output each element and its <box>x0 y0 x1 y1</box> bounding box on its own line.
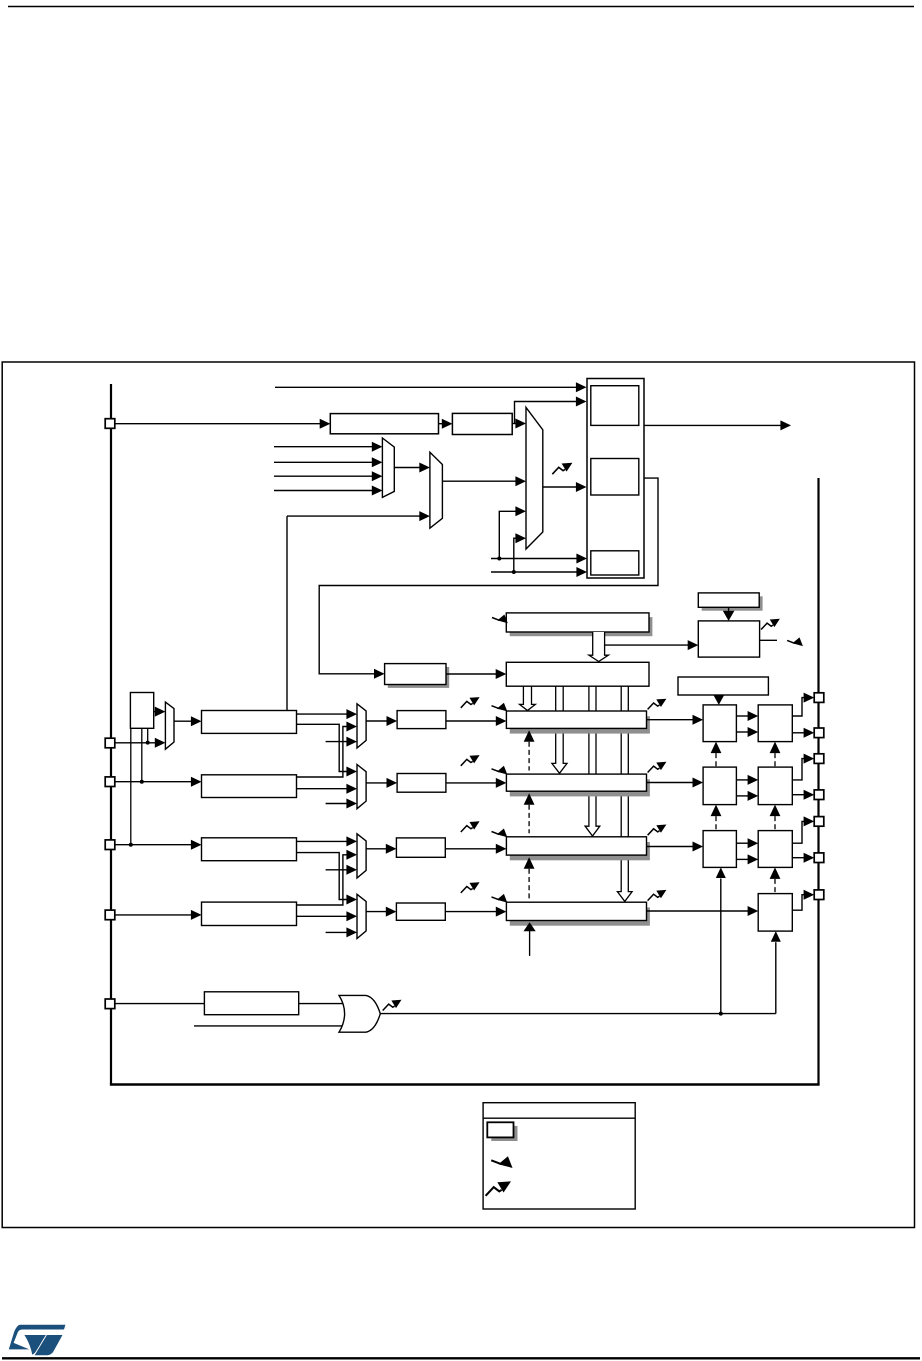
mux M30 edge select <box>357 834 366 878</box>
wire clock tap 2 <box>274 461 374 463</box>
box prescaler P2 <box>452 413 512 434</box>
mux M1 clock select <box>382 438 394 497</box>
write strobe symbol at CC3 <box>492 829 508 838</box>
wire pin4 to channel4 box <box>115 914 193 916</box>
register CR2 control <box>506 662 649 686</box>
dashed link CC3 to CC4 <box>524 857 535 869</box>
interrupt flag symbol at G1 <box>383 1000 402 1011</box>
wire CR1 to interrupt block <box>605 644 690 646</box>
dashed link output3 to output4 <box>770 867 781 879</box>
wire clock tap 1 <box>274 446 374 448</box>
legend write strobe symbol <box>491 1156 512 1168</box>
box channel1 input stage <box>202 711 297 734</box>
bus arrow to register CC1 <box>520 686 536 710</box>
arrow compare clock under CC4 <box>524 922 536 931</box>
wire output circuit 1 to pin bottom <box>792 732 806 734</box>
wire edge register tap to pin3 net <box>130 728 132 844</box>
box overflow prescaler <box>388 667 449 688</box>
wire clock tap 3 <box>274 475 374 477</box>
wire output circuit 3 to pin bottom <box>792 857 806 859</box>
dashed link output1 to output2 <box>770 742 781 754</box>
register counter low <box>591 459 639 496</box>
pin OUT1B <box>814 728 824 738</box>
wire EXTCLK pin to prescaler <box>115 423 322 425</box>
wire latch to register CC3 <box>445 848 498 850</box>
wire clock tap 4 <box>274 490 374 492</box>
arrow mask register to interrupt logic <box>728 607 730 611</box>
dashed link compare2 to compare3 <box>711 805 722 817</box>
wire mux to latch channel2 <box>366 782 388 784</box>
wire forced compare to OR gate <box>194 1025 345 1027</box>
wire pin1 to M0 <box>115 742 157 744</box>
arrows compare to output circuit 2 <box>736 779 750 781</box>
bus arrow CR1 to CR2 <box>589 632 609 662</box>
wires channel3/channel4 edge select <box>297 840 349 842</box>
wire mux to latch channel3 <box>366 848 388 850</box>
interrupt flag symbol left of CC4 <box>461 882 480 893</box>
pin OCMP5 <box>105 999 115 1009</box>
pin OUT3A <box>814 817 824 827</box>
legend box <box>483 1103 635 1209</box>
register CC4 <box>510 907 650 925</box>
wire edge register to M0 <box>154 711 158 713</box>
wire output circuit 3 to pin top <box>792 821 806 843</box>
box compare circuit 3 <box>703 831 736 868</box>
pin OUT4 <box>814 890 824 900</box>
pin OUT1A <box>814 693 824 703</box>
wire OCMP box to OR gate <box>299 1003 345 1005</box>
box interrupt mask register <box>702 596 763 610</box>
interrupt flag symbol left of CC3 <box>461 821 480 832</box>
wire channel1 tap to M2 <box>286 516 288 711</box>
box channel3 input stage <box>202 838 297 861</box>
interrupt flag symbol at M3 <box>552 463 572 474</box>
dashed link compare1 to compare2 <box>711 742 722 754</box>
page bottom rule <box>2 1357 920 1359</box>
write strobe symbol at CC2 <box>492 766 508 775</box>
wire CC4 to output circuit <box>647 910 750 912</box>
register CC3 <box>510 842 650 860</box>
box output circuit 3 <box>758 831 792 868</box>
box channel3 latch <box>396 838 445 857</box>
pin ICAP3 <box>105 840 115 850</box>
wire edge register tap to pin2 net <box>141 728 143 781</box>
box output circuit 2 <box>758 767 792 805</box>
wire mux to latch channel4 <box>366 911 388 913</box>
wire fCPU to register block <box>275 386 578 388</box>
wire CC3 to compare circuit <box>647 846 695 848</box>
box compare circuit 1 <box>703 705 736 742</box>
wire net A to register block <box>491 558 579 560</box>
legend title rule <box>483 1117 635 1119</box>
bus arrow to register CC2 <box>552 686 567 773</box>
pin OUT2B <box>814 790 824 800</box>
wire M2 to M3 <box>442 480 518 482</box>
register alternate counter <box>591 551 639 575</box>
wire M3 to register block <box>543 486 578 488</box>
pin OUT2A <box>814 754 824 764</box>
write strobe symbol at CC1 <box>492 703 508 712</box>
arrow OC control to OC1 circuit <box>718 695 720 696</box>
box counter register block <box>587 379 644 579</box>
wire pin5 to OCMP box <box>115 1003 204 1005</box>
wire output circuit 1 to pin top <box>792 698 806 716</box>
box channel2 input stage <box>202 775 297 798</box>
box interrupt logic <box>698 621 759 657</box>
bus arrow to register CC4 <box>617 686 632 901</box>
figure frame <box>2 362 914 1228</box>
interrupt flag symbol right of CC4 <box>648 890 667 901</box>
wire interrupt request stub <box>760 639 777 641</box>
legend interrupt flag symbol <box>486 1181 511 1195</box>
box output circuit 1 <box>758 705 792 742</box>
interrupt flag symbol at interrupt logic <box>761 619 780 630</box>
interrupt flag symbol right of CC2 <box>648 762 667 773</box>
box channel4 input stage <box>202 902 297 925</box>
box output compare enable <box>204 992 298 1015</box>
wire G1 branch up to compare3 <box>720 879 722 1014</box>
or-gate G1 <box>339 995 380 1032</box>
wire counter feedback loop <box>319 478 658 674</box>
pin EXTCLK <box>105 419 115 429</box>
box channel1 latch <box>397 711 446 729</box>
ST logo <box>9 1325 66 1356</box>
interrupt flag symbol left of CC1 <box>461 697 480 708</box>
wire M0 to channel1 box <box>174 720 193 722</box>
wire M1 to M2 <box>394 467 421 469</box>
wire latch to register CC1 <box>446 720 498 722</box>
wire output circuit 2 to pin top <box>792 759 806 780</box>
write strobe symbol at CR1 <box>492 615 508 624</box>
wires channel1/channel2 edge select <box>297 713 349 715</box>
wire P2 to mux M3 and register block <box>512 423 518 425</box>
dashed link CC1 to CC2 <box>524 730 535 742</box>
interrupt flag symbol left of CC2 <box>461 755 480 766</box>
write strobe symbol at CC4 <box>492 894 508 903</box>
mux M20 edge select <box>357 765 366 809</box>
box output compare control <box>678 677 768 695</box>
wire P1 to P2 <box>439 423 445 425</box>
enclosure left bus line <box>110 384 112 1085</box>
box channel2 latch <box>397 774 446 793</box>
bus arrow to register CC3 <box>585 686 600 836</box>
box channel4 latch <box>396 903 445 920</box>
legend register sample <box>491 1126 517 1141</box>
mux M10 edge select <box>357 704 366 748</box>
wire output circuit 2 to pin bottom <box>792 794 806 796</box>
mux M3 main clock <box>526 407 543 549</box>
interrupt flag symbol right of CC1 <box>648 699 667 710</box>
wire CC1 to compare circuit <box>647 719 695 721</box>
arrows compare to output circuit 1 <box>736 715 750 717</box>
pin ICAP1 <box>105 738 115 748</box>
interrupt flag symbol right of CC3 <box>648 825 667 836</box>
wire output circuit 4 to pin <box>792 895 806 911</box>
wire G1 output to compare circuits <box>380 1013 776 1015</box>
wire pin3 to channel3 box <box>115 844 193 846</box>
enclosure bottom line <box>110 1083 820 1085</box>
mux M0 input select <box>165 702 174 749</box>
write strobe symbol right of interrupt logic <box>787 637 803 646</box>
wire counter value output <box>644 424 782 426</box>
wire G1 branch up to output4 <box>775 942 777 1013</box>
register CC1 <box>510 716 650 733</box>
wire CC2 to compare circuit <box>647 782 695 784</box>
register CC2 <box>510 779 650 796</box>
internal output bus line (right) <box>817 478 819 1085</box>
box output circuit 4 <box>758 894 792 932</box>
wire latch to register CC2 <box>446 782 498 784</box>
box prescaler P1 <box>330 414 438 434</box>
pin OUT3B <box>814 853 824 863</box>
mux M2 clock select <box>430 452 443 528</box>
page top rule <box>8 6 914 8</box>
box compare circuit 2 <box>703 767 736 805</box>
wire latch to register CC4 <box>445 911 498 913</box>
arrows compare to output circuit 3 <box>736 842 750 844</box>
box ICAP edge register <box>130 693 153 729</box>
pin ICAP4 <box>105 910 115 920</box>
mux M40 edge select <box>357 894 366 938</box>
wire pin2 to channel2 box <box>115 781 193 783</box>
register CR1 control <box>510 617 653 636</box>
register counter high <box>591 386 639 426</box>
wire overflow prescaler to CR2 <box>446 673 498 675</box>
wire edge register tap to pin1 net <box>147 728 149 742</box>
dashed link output2 to output3 <box>770 805 781 817</box>
dashed link CC2 to CC3 <box>524 793 535 805</box>
pin ICAP2 <box>105 777 115 787</box>
wire net B to register block <box>491 571 579 573</box>
wire mux to latch channel1 <box>366 720 388 722</box>
